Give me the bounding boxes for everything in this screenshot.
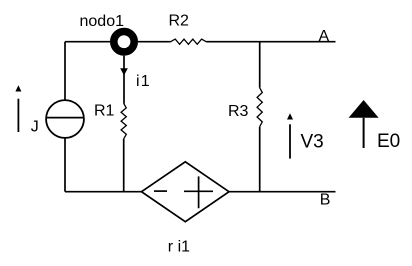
svg-text:i1: i1 bbox=[136, 73, 151, 90]
svg-text:R2: R2 bbox=[169, 13, 190, 30]
wire left vertical down to current source bbox=[64, 42, 66, 101]
resistor R3 zigzag bbox=[257, 88, 262, 127]
wire below current source to bottom rail bbox=[64, 138, 66, 192]
svg-text:nodo1: nodo1 bbox=[80, 13, 125, 30]
svg-text:B: B bbox=[320, 192, 331, 209]
resistor R2 zigzag bbox=[171, 39, 206, 44]
svg-text:E0: E0 bbox=[377, 131, 400, 152]
arrow E0 bbox=[349, 100, 379, 148]
dependent source diamond r.i1 bbox=[142, 162, 230, 222]
wire top-left horizontal from corner to node bbox=[65, 41, 110, 43]
wire R3 bottom to rail bbox=[259, 127, 261, 192]
wire R3 top vertical bbox=[259, 42, 261, 88]
plus sign inside diamond bbox=[184, 176, 213, 208]
svg-text:V3: V3 bbox=[301, 131, 324, 152]
current source J bar bbox=[46, 117, 84, 119]
svg-text:R3: R3 bbox=[228, 103, 249, 120]
bottom rail right bbox=[229, 191, 336, 193]
resistor R1 zigzag bbox=[121, 103, 126, 138]
arrow V3 bbox=[287, 113, 293, 158]
wire node to R2 bbox=[138, 41, 171, 43]
bottom rail left bbox=[65, 191, 142, 193]
arrow J (current direction) bbox=[15, 85, 21, 132]
svg-text:A: A bbox=[319, 28, 330, 45]
arrowhead i1 on wire bbox=[120, 68, 128, 75]
wire R2 to A end bbox=[206, 41, 335, 43]
svg-text:r i1: r i1 bbox=[168, 238, 190, 255]
current source J circle bbox=[46, 100, 84, 138]
svg-text:R1: R1 bbox=[94, 103, 115, 120]
wire R1 bottom to rail bbox=[123, 139, 125, 192]
node nodo1 (filled ring) bbox=[114, 32, 134, 52]
minus sign inside diamond bbox=[154, 190, 167, 192]
svg-text:J: J bbox=[31, 118, 39, 135]
wire node bottom vertical bbox=[123, 56, 125, 104]
